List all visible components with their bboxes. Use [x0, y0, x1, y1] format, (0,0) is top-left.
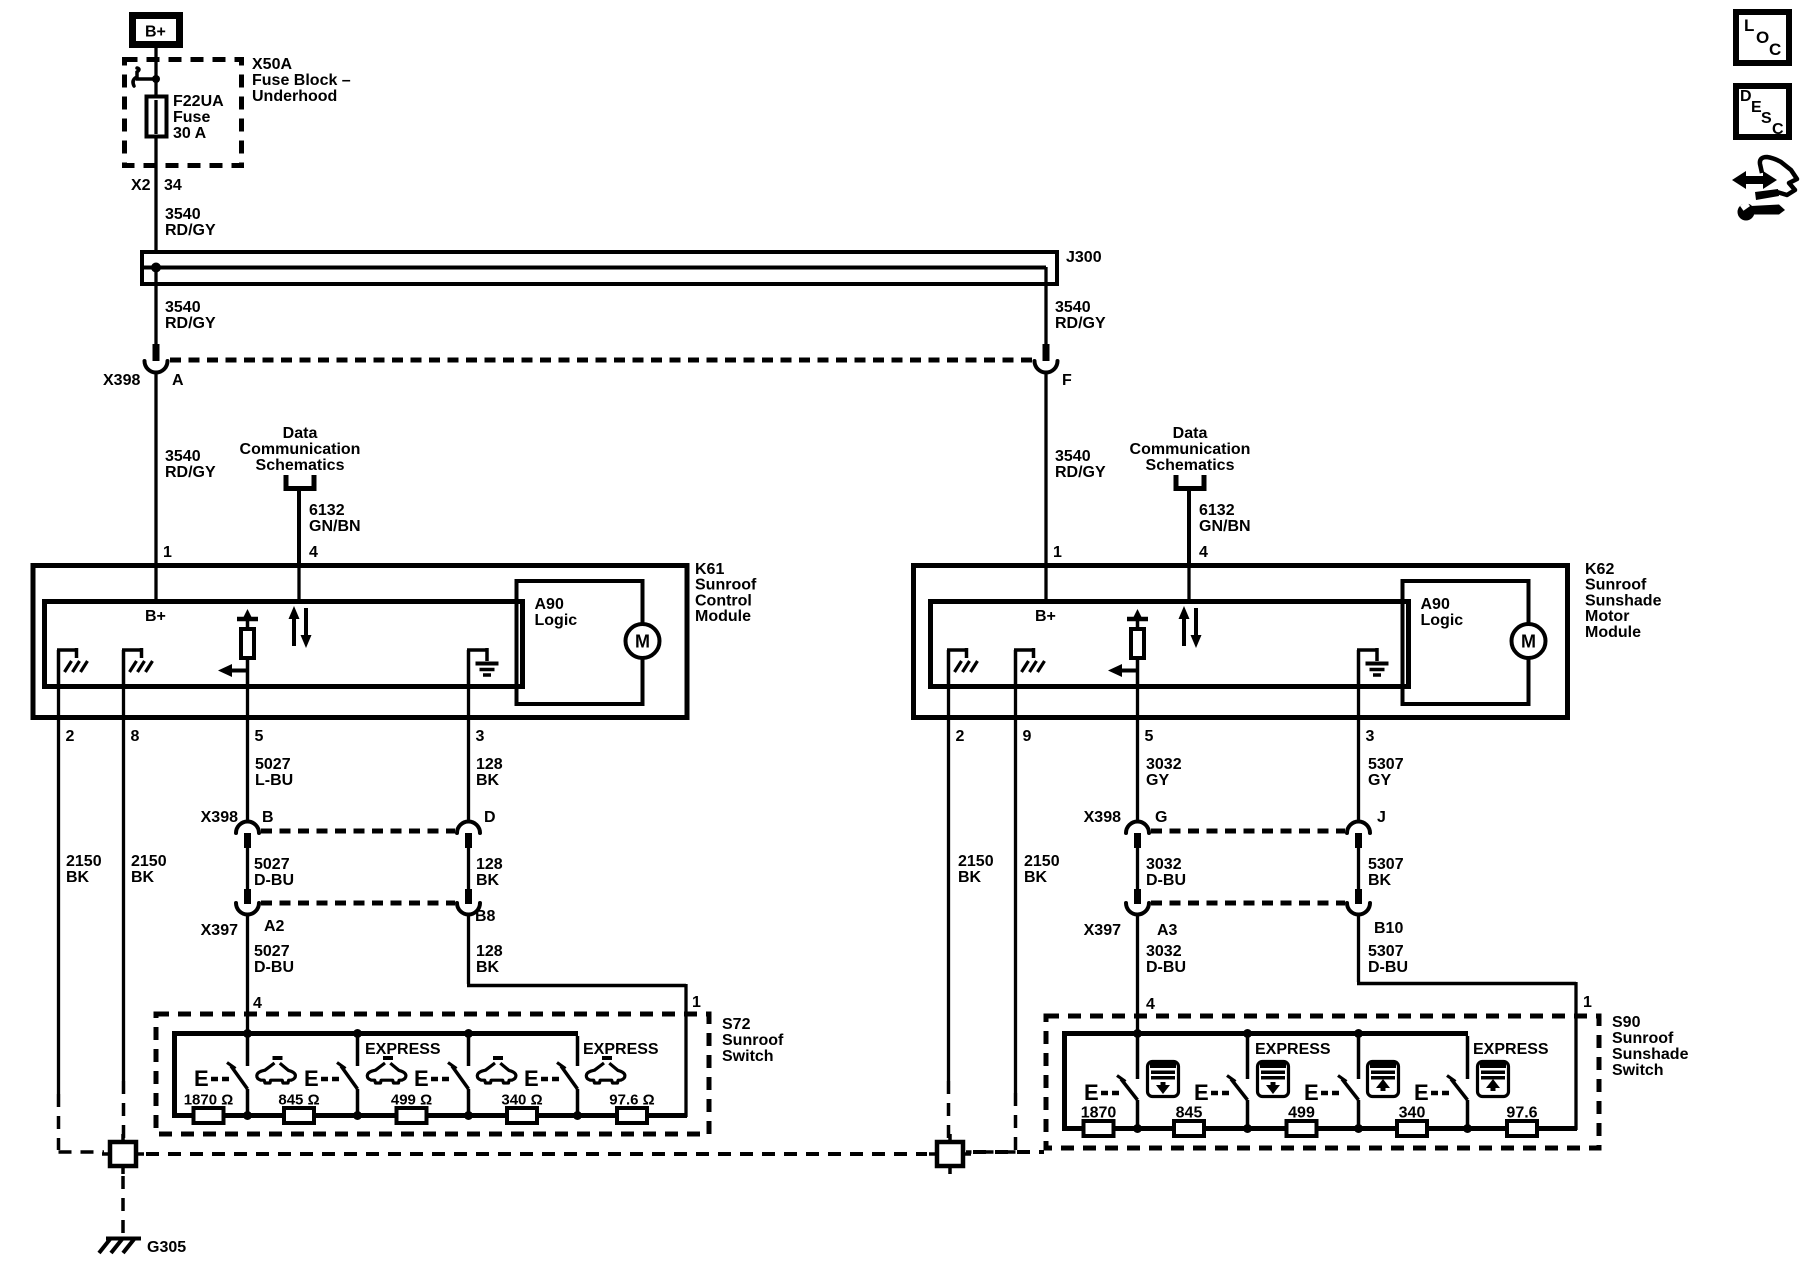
- S90 common rail (top): [1062, 1031, 1468, 1036]
- sunshade icon (express close): [1258, 1062, 1289, 1097]
- switch blade: [1342, 1079, 1359, 1100]
- svg-text:F22UA: F22UA: [173, 93, 224, 110]
- svg-text:3540: 3540: [1055, 448, 1091, 465]
- switch contact stub: [1246, 1036, 1250, 1079]
- svg-text:E: E: [1304, 1080, 1319, 1105]
- svg-text:3032: 3032: [1146, 856, 1182, 873]
- module K61 outer box: [33, 566, 687, 718]
- svg-text:O: O: [1756, 28, 1769, 47]
- svg-text:Data: Data: [283, 425, 318, 442]
- svg-text:5307: 5307: [1368, 943, 1404, 960]
- svg-text:F: F: [1062, 372, 1072, 389]
- svg-text:Sunroof: Sunroof: [1612, 1030, 1674, 1047]
- svg-text:X397: X397: [201, 922, 238, 939]
- svg-text:RD/GY: RD/GY: [165, 464, 216, 481]
- S72 left side wire: [172, 1031, 177, 1116]
- svg-text:L-BU: L-BU: [255, 772, 293, 789]
- junction dot on J300 at left tap: [151, 263, 161, 273]
- wire X398 F to K62 pin 1: [1044, 372, 1047, 565]
- junction on common rail: [464, 1029, 473, 1038]
- resistor 97.6 ohm: [617, 1108, 647, 1123]
- svg-text:Switch: Switch: [722, 1048, 774, 1065]
- dashed connector body B-D: [261, 829, 455, 834]
- S90 sunroof sunshade switch dashed box: [1046, 1016, 1599, 1148]
- K61 up/down drive arrows: [292, 616, 296, 646]
- svg-text:340: 340: [1399, 1105, 1426, 1122]
- svg-text:B+: B+: [145, 24, 166, 41]
- connector X398 terminal D: [457, 822, 480, 834]
- svg-text:E: E: [1194, 1080, 1209, 1105]
- svg-text:499: 499: [1288, 1105, 1315, 1122]
- K61 pin 1 wire inside module: [154, 565, 157, 601]
- sunshade icon (express open): [1478, 1062, 1509, 1097]
- svg-text:BK: BK: [958, 869, 982, 886]
- connector X398 terminal A: [153, 344, 160, 361]
- dashed ground interconnect wire: [146, 1152, 927, 1156]
- splice pack J300 bus: [142, 252, 1057, 284]
- svg-text:1: 1: [163, 544, 172, 561]
- svg-text:X2: X2: [131, 177, 151, 194]
- junction on common rail: [353, 1029, 362, 1038]
- resistor 340 ohm: [507, 1108, 537, 1123]
- svg-text:5027: 5027: [254, 943, 290, 960]
- svg-text:Module: Module: [695, 608, 751, 625]
- svg-text:X398: X398: [201, 809, 238, 826]
- navigation arrow icon: [1732, 171, 1777, 189]
- svg-text:K62: K62: [1585, 561, 1614, 578]
- svg-text:Logic: Logic: [1421, 612, 1464, 629]
- svg-text:1: 1: [692, 994, 701, 1011]
- wire 3032 D-BU (G to A3): [1136, 848, 1139, 889]
- svg-text:E: E: [524, 1066, 539, 1091]
- svg-text:2150: 2150: [131, 853, 167, 870]
- dashed wire to ground G305: [121, 1176, 125, 1237]
- K61 chassis ground symbol (second): [122, 650, 126, 684]
- dashed connector body A2-B8: [261, 901, 455, 906]
- K61 chassis ground symbol (left): [57, 650, 61, 684]
- svg-text:EXPRESS: EXPRESS: [1255, 1041, 1331, 1058]
- K61 pin 4 wire inside module: [297, 565, 300, 601]
- svg-text:3: 3: [1366, 728, 1375, 745]
- svg-text:Communication: Communication: [1130, 441, 1251, 458]
- K62 pin 4 wire inside module: [1187, 565, 1190, 601]
- svg-text:E: E: [1084, 1080, 1099, 1105]
- svg-text:1870: 1870: [1081, 1105, 1117, 1122]
- svg-text:D-BU: D-BU: [254, 872, 294, 889]
- svg-text:2: 2: [956, 728, 965, 745]
- svg-text:4: 4: [253, 995, 262, 1012]
- svg-text:BK: BK: [66, 869, 90, 886]
- switch contact stub: [576, 1036, 580, 1066]
- svg-text:5307: 5307: [1368, 856, 1404, 873]
- svg-text:1: 1: [1053, 544, 1062, 561]
- K62 motor M: [1512, 624, 1546, 658]
- junction on resistor rail: [573, 1111, 582, 1120]
- svg-text:Logic: Logic: [535, 612, 578, 629]
- svg-text:3032: 3032: [1146, 756, 1182, 773]
- switch to resistor tap: [1466, 1100, 1470, 1129]
- svg-text:2150: 2150: [958, 853, 994, 870]
- S90 left side wire: [1062, 1031, 1067, 1129]
- svg-text:128: 128: [476, 943, 503, 960]
- switch blade: [452, 1066, 469, 1089]
- svg-text:BK: BK: [1024, 869, 1048, 886]
- LOC reference box: [1736, 12, 1789, 63]
- svg-text:Motor: Motor: [1585, 608, 1629, 625]
- svg-text:A3: A3: [1157, 922, 1178, 939]
- svg-text:Underhood: Underhood: [252, 88, 337, 105]
- wire 3032 GY from K62 pin 5: [1136, 718, 1139, 822]
- battery B+ terminal box: [133, 16, 180, 45]
- svg-text:L: L: [1744, 16, 1754, 35]
- K61 pull-up resistor with supply tap: [237, 617, 258, 622]
- svg-text:D-BU: D-BU: [1146, 872, 1186, 889]
- svg-text:E: E: [304, 1066, 319, 1091]
- svg-text:3540: 3540: [165, 448, 201, 465]
- svg-text:G305: G305: [147, 1239, 186, 1256]
- K62 output arrow to pin 5: [1136, 658, 1140, 684]
- svg-text:128: 128: [476, 756, 503, 773]
- svg-text:499 Ω: 499 Ω: [391, 1092, 432, 1109]
- svg-text:B10: B10: [1374, 920, 1403, 937]
- svg-text:A90: A90: [1421, 596, 1450, 613]
- junction on resistor rail: [1243, 1124, 1252, 1133]
- svg-text:3032: 3032: [1146, 943, 1182, 960]
- switch contact stub: [1136, 1036, 1140, 1079]
- junction on common rail: [1133, 1029, 1142, 1038]
- svg-text:BK: BK: [131, 869, 155, 886]
- connector X398 terminal F: [1043, 344, 1050, 361]
- svg-text:3540: 3540: [165, 206, 201, 223]
- svg-text:RD/GY: RD/GY: [1055, 315, 1106, 332]
- switch contact stub: [467, 1036, 471, 1066]
- svg-text:9: 9: [1023, 728, 1032, 745]
- svg-text:340 Ω: 340 Ω: [501, 1092, 542, 1109]
- switch to resistor tap: [356, 1089, 360, 1116]
- svg-text:S: S: [1761, 110, 1772, 127]
- svg-text:BK: BK: [476, 959, 500, 976]
- wire 128 BK to S72 pin 1: [467, 915, 470, 985]
- svg-text:GY: GY: [1368, 772, 1391, 789]
- svg-text:2150: 2150: [66, 853, 102, 870]
- svg-text:2150: 2150: [1024, 853, 1060, 870]
- wire 128 BK (D to B8): [467, 848, 470, 889]
- svg-text:GY: GY: [1146, 772, 1169, 789]
- svg-text:4: 4: [1146, 996, 1155, 1013]
- splice junction block (left): [110, 1142, 136, 1166]
- svg-text:RD/GY: RD/GY: [165, 222, 216, 239]
- svg-text:RD/GY: RD/GY: [165, 315, 216, 332]
- svg-text:5307: 5307: [1368, 756, 1404, 773]
- junction on resistor rail: [464, 1111, 473, 1120]
- connector X398 terminal G: [1126, 822, 1149, 834]
- svg-text:X398: X398: [1084, 809, 1121, 826]
- svg-text:G: G: [1155, 809, 1167, 826]
- junction on common rail: [243, 1029, 252, 1038]
- svg-text:97.6 Ω: 97.6 Ω: [609, 1092, 654, 1109]
- K61 output arrow to pin 5: [246, 658, 250, 684]
- wire 3032 D-BU to S90 pin 4: [1136, 915, 1139, 1035]
- K61 pin stub wires through box bottom: [57, 684, 60, 720]
- svg-text:E: E: [194, 1066, 209, 1091]
- svg-text:5: 5: [1145, 728, 1154, 745]
- svg-text:EXPRESS: EXPRESS: [583, 1041, 659, 1058]
- svg-text:M: M: [1521, 632, 1536, 652]
- svg-text:5027: 5027: [254, 856, 290, 873]
- svg-text:Communication: Communication: [240, 441, 361, 458]
- junction on common rail: [1354, 1029, 1363, 1038]
- svg-text:3: 3: [476, 728, 485, 745]
- svg-text:B: B: [262, 809, 274, 826]
- switch to resistor tap: [246, 1089, 250, 1116]
- K62 A90 logic box: [1403, 581, 1529, 704]
- pointer outline icon: [1760, 157, 1797, 195]
- resistor 1870 ohm: [194, 1108, 224, 1123]
- svg-text:C: C: [1772, 121, 1784, 138]
- wire 2150 BK from K62 pin 9: [1014, 718, 1017, 1093]
- svg-text:97.6: 97.6: [1506, 1105, 1537, 1122]
- svg-text:30 A: 30 A: [173, 125, 207, 142]
- resistor 499 ohm: [397, 1108, 427, 1123]
- svg-text:A90: A90: [535, 596, 564, 613]
- wire 5027 D-BU (B to A2): [246, 848, 249, 889]
- svg-text:J300: J300: [1066, 249, 1102, 266]
- svg-text:K61: K61: [695, 561, 724, 578]
- svg-text:Schematics: Schematics: [256, 457, 345, 474]
- switch blade: [1451, 1079, 1468, 1100]
- fuse F22UA 30A: [154, 79, 157, 97]
- connector X398 terminal J: [1347, 822, 1370, 834]
- wire 128 BK from K61 pin 3: [467, 718, 470, 822]
- svg-text:BK: BK: [476, 872, 500, 889]
- svg-text:A2: A2: [264, 918, 285, 935]
- switch to resistor tap: [1246, 1100, 1250, 1129]
- svg-text:S72: S72: [722, 1016, 751, 1033]
- K62 chassis ground symbol (second): [1014, 650, 1018, 684]
- module K61 inner device box: [45, 602, 523, 687]
- S90 resistor chain rail (bottom): [1062, 1126, 1577, 1131]
- K62 pin stub wires through box bottom: [947, 684, 950, 720]
- svg-text:Sunroof: Sunroof: [722, 1032, 784, 1049]
- resistor 1870 ohm: [1084, 1121, 1114, 1136]
- resistor 340 ohm: [1397, 1121, 1427, 1136]
- svg-text:4: 4: [1199, 544, 1208, 561]
- wire 5027 D-BU to S72 pin 4: [246, 915, 249, 1035]
- junction on resistor rail: [1133, 1124, 1142, 1133]
- resistor 499 ohm: [1287, 1121, 1317, 1136]
- svg-text:128: 128: [476, 856, 503, 873]
- sunshade icon (close): [1148, 1062, 1179, 1097]
- wire from J300 left tap down: [154, 267, 157, 346]
- fuse-block clip symbol: [133, 68, 139, 86]
- svg-text:Sunroof: Sunroof: [1585, 577, 1647, 594]
- K61 logic ground symbol (pin 3): [467, 650, 471, 684]
- svg-text:B+: B+: [1035, 608, 1056, 625]
- svg-text:Sunshade: Sunshade: [1612, 1046, 1689, 1063]
- connector X397 terminal B8: [465, 889, 472, 904]
- svg-text:Fuse: Fuse: [173, 109, 210, 126]
- svg-text:34: 34: [164, 177, 182, 194]
- K62 pull-up resistor with supply tap: [1127, 617, 1148, 622]
- svg-text:S90: S90: [1612, 1014, 1641, 1031]
- K62 logic ground symbol (pin 3): [1357, 650, 1361, 684]
- svg-text:D: D: [484, 809, 496, 826]
- wire 2150 BK from K62 pin 2: [947, 718, 950, 1081]
- module K62 outer box: [914, 566, 1568, 718]
- resistor 97.6 ohm: [1507, 1121, 1537, 1136]
- svg-text:D-BU: D-BU: [1368, 959, 1408, 976]
- wire 2150 BK from K61 pin 8: [122, 718, 125, 1081]
- switch blade: [1121, 1079, 1138, 1100]
- svg-text:Module: Module: [1585, 624, 1641, 641]
- wire X398 A to K61 pin 1: [154, 372, 157, 565]
- svg-text:E: E: [414, 1066, 429, 1091]
- svg-text:BK: BK: [476, 772, 500, 789]
- svg-text:Sunshade: Sunshade: [1585, 592, 1662, 609]
- fuse block X50A dashed box: [125, 60, 242, 166]
- sunshade icon (open): [1368, 1062, 1399, 1097]
- svg-text:RD/GY: RD/GY: [1055, 464, 1106, 481]
- svg-text:J: J: [1377, 809, 1386, 826]
- splice junction block (right): [937, 1142, 963, 1166]
- junction on common rail: [1243, 1029, 1252, 1038]
- switch blade: [341, 1066, 358, 1089]
- switch to resistor tap: [1136, 1100, 1140, 1129]
- connector X397 terminal B10: [1355, 889, 1362, 904]
- switch to resistor tap: [1357, 1100, 1361, 1129]
- svg-text:845 Ω: 845 Ω: [278, 1092, 319, 1109]
- sunroof car icon: [257, 1056, 296, 1083]
- resistor 845 ohm: [1174, 1121, 1204, 1136]
- ground G305: [106, 1237, 141, 1241]
- switch contact stub: [246, 1036, 250, 1066]
- K61 A90 logic box: [517, 581, 643, 704]
- svg-text:Switch: Switch: [1612, 1062, 1664, 1079]
- svg-text:Fuse Block –: Fuse Block –: [252, 72, 351, 89]
- svg-text:2: 2: [66, 728, 75, 745]
- switch to resistor tap: [576, 1089, 580, 1116]
- DESC reference box: [1736, 86, 1789, 137]
- sunroof car icon: [586, 1056, 625, 1083]
- svg-text:C: C: [1769, 40, 1781, 59]
- dashed connector body A3-B10: [1151, 901, 1345, 906]
- wire 5307 BK (J to B10): [1357, 848, 1360, 889]
- svg-text:845: 845: [1176, 1105, 1203, 1122]
- switch contact stub: [356, 1036, 360, 1066]
- svg-text:BK: BK: [1368, 872, 1392, 889]
- junction on resistor rail: [1463, 1124, 1472, 1133]
- switch blade: [1231, 1079, 1248, 1100]
- K62 chassis ground symbol (left): [947, 650, 951, 684]
- wire B+ to fuse block: [154, 48, 157, 80]
- svg-text:Data: Data: [1173, 425, 1208, 442]
- svg-text:X50A: X50A: [252, 56, 292, 73]
- svg-text:6132: 6132: [1199, 502, 1235, 519]
- svg-text:A: A: [172, 372, 184, 389]
- S72 sunroof switch dashed box: [156, 1014, 709, 1134]
- wrench icon: [1738, 204, 1755, 221]
- K62 up/down drive arrows: [1182, 616, 1186, 646]
- switch blade: [231, 1066, 248, 1089]
- svg-text:M: M: [635, 632, 650, 652]
- svg-text:3540: 3540: [165, 299, 201, 316]
- K62 pin 1 wire inside module: [1044, 565, 1047, 601]
- svg-text:5: 5: [255, 728, 264, 745]
- svg-text:GN/BN: GN/BN: [1199, 518, 1251, 535]
- sunroof car icon: [477, 1056, 516, 1083]
- svg-text:E: E: [1414, 1080, 1429, 1105]
- svg-text:4: 4: [309, 544, 318, 561]
- dashed connector body G-J: [1151, 829, 1345, 834]
- dashed connector body line A-F: [170, 358, 1032, 363]
- junction on resistor rail: [243, 1111, 252, 1120]
- svg-text:D: D: [1740, 88, 1752, 105]
- S72 resistor chain rail (bottom): [172, 1113, 687, 1118]
- switch blade: [561, 1066, 578, 1089]
- switch contact stub: [1357, 1036, 1361, 1079]
- svg-text:Schematics: Schematics: [1146, 457, 1235, 474]
- module K62 inner device box: [931, 602, 1409, 687]
- svg-text:B+: B+: [145, 608, 166, 625]
- svg-text:Sunroof: Sunroof: [695, 577, 757, 594]
- svg-text:X397: X397: [1084, 922, 1121, 939]
- S72 common rail (top): [172, 1031, 578, 1036]
- svg-text:X398: X398: [103, 372, 140, 389]
- wire 2150 BK from K61 pin 2: [57, 718, 60, 1094]
- wire from J300 right tap down: [1044, 267, 1047, 346]
- junction on resistor rail: [353, 1111, 362, 1120]
- connector X398 terminal B: [236, 822, 259, 834]
- svg-text:EXPRESS: EXPRESS: [1473, 1041, 1549, 1058]
- svg-text:D-BU: D-BU: [254, 959, 294, 976]
- svg-text:8: 8: [131, 728, 140, 745]
- K61 motor M: [626, 624, 660, 658]
- switch to resistor tap: [467, 1089, 471, 1116]
- wire 5307 D-BU to S90 pin 1: [1357, 915, 1360, 983]
- svg-text:B8: B8: [475, 908, 496, 925]
- connector X397 terminal A3: [1134, 889, 1141, 904]
- wire 5027 L-BU from K61 pin 5: [246, 718, 249, 822]
- svg-text:1: 1: [1583, 994, 1592, 1011]
- svg-text:Control: Control: [695, 592, 752, 609]
- svg-text:GN/BN: GN/BN: [309, 518, 361, 535]
- resistor 845 ohm: [284, 1108, 314, 1123]
- svg-text:EXPRESS: EXPRESS: [365, 1041, 441, 1058]
- svg-text:1870 Ω: 1870 Ω: [184, 1092, 234, 1109]
- sunroof car icon: [367, 1056, 406, 1083]
- svg-text:6132: 6132: [309, 502, 345, 519]
- wire 5307 GY from K62 pin 3: [1357, 718, 1360, 822]
- junction on resistor rail: [1354, 1124, 1363, 1133]
- svg-text:D-BU: D-BU: [1146, 959, 1186, 976]
- connector X397 terminal A2: [244, 889, 251, 904]
- svg-text:3540: 3540: [1055, 299, 1091, 316]
- switch contact stub: [1466, 1036, 1470, 1079]
- svg-text:5027: 5027: [255, 756, 291, 773]
